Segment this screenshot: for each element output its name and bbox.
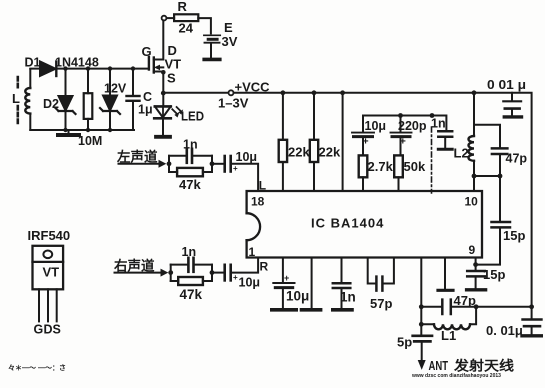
svg-text:发射天线: 发射天线 (453, 358, 515, 374)
node dot tank bottom right (498, 174, 503, 179)
svg-text:+: + (400, 136, 406, 148)
svg-text:L: L (12, 91, 20, 106)
wire filter group top (363, 116, 446, 131)
capacitor 5p (antenna series) (397, 324, 432, 370)
node dot source S / VCC (161, 91, 166, 96)
svg-text:15p: 15p (483, 267, 505, 282)
resistor R 24 (162, 0, 211, 36)
svg-text:ANT: ANT (429, 358, 449, 373)
node dot VCC feed wire (340, 90, 345, 95)
node dot RF node right (474, 304, 479, 309)
svg-text:1n: 1n (183, 138, 198, 152)
svg-text:G: G (34, 323, 44, 337)
op-amp U1 IC BA1404 body (247, 191, 482, 259)
inductor L2 (oscillator coil) (454, 93, 475, 176)
resistor RP1 47k (left channel) (169, 156, 212, 192)
node dot pin 9 (473, 262, 478, 267)
wire VCC to IC pin (342, 93, 344, 191)
node dot RF node left (419, 304, 424, 309)
svg-text:E: E (224, 20, 233, 35)
capacitor C 1n (right channel) (171, 245, 212, 281)
LED indicator (154, 93, 204, 137)
wire top rail of input section (30, 68, 149, 70)
svg-text:+: + (233, 273, 238, 282)
zener diode 12V (100, 69, 127, 130)
svg-text:VT: VT (165, 57, 182, 72)
node dot right combo input (168, 270, 173, 275)
node dot tank bottom left (472, 174, 477, 179)
svg-text:5p: 5p (397, 335, 412, 350)
svg-text:1–3V: 1–3V (218, 96, 249, 111)
svg-text:L1: L1 (441, 328, 456, 343)
wire left channel input arrow (119, 160, 167, 168)
svg-text:47p: 47p (454, 293, 476, 308)
svg-text:47k: 47k (180, 287, 203, 302)
svg-text:57p: 57p (370, 296, 392, 311)
svg-text:1n: 1n (182, 245, 197, 259)
svg-text:50k: 50k (404, 159, 426, 174)
wire bottom rail of input section (30, 129, 134, 131)
svg-text:1N4148: 1N4148 (55, 56, 99, 70)
node dot top 12V (108, 66, 112, 70)
svg-text:22k: 22k (288, 145, 310, 160)
node dot left combo output (210, 161, 215, 166)
node terminal circle VCC (229, 90, 234, 95)
svg-text:L2: L2 (454, 146, 469, 161)
svg-text:D2: D2 (43, 97, 59, 111)
svg-text:1n: 1n (431, 117, 446, 131)
capacitor 10u (right channel coupling) (212, 258, 260, 290)
node dot L1 left (419, 322, 424, 327)
svg-text:+VCC: +VCC (235, 80, 271, 95)
wire +VCC rail (166, 93, 532, 307)
node dot top C (131, 66, 135, 70)
svg-text:47p: 47p (506, 152, 528, 166)
inductor L1 (421, 307, 476, 343)
node dot bottom 12V (108, 128, 112, 132)
svg-text:IRF540: IRF540 (28, 228, 71, 243)
capacitor 10u (left channel coupling) (212, 150, 258, 191)
node dot 220p top (398, 113, 403, 118)
svg-text:2.7k: 2.7k (368, 159, 394, 174)
capacitor 220p (391, 116, 427, 156)
svg-text:々＊—〜 —〜：さ: 々＊—〜 —〜：さ (8, 363, 66, 372)
capacitor C 1n (left channel) (169, 138, 212, 173)
svg-text:左声道: 左声道 (116, 149, 158, 165)
capacitor 47p (antenna coupling) (421, 293, 531, 314)
svg-text:10: 10 (465, 195, 479, 209)
resistor 2.7k (359, 155, 394, 191)
svg-text:DS: DS (44, 323, 61, 337)
svg-text:10μ: 10μ (236, 150, 258, 164)
svg-text:24: 24 (179, 21, 194, 36)
svg-text:IC BA1404: IC BA1404 (311, 216, 384, 231)
resistor RP2 47k (right channel) (171, 265, 212, 302)
node dot shield crossing (430, 113, 435, 118)
svg-text:+: + (233, 164, 238, 173)
inductor L (pickup coil with dashed core) (12, 69, 30, 130)
svg-text:0 01 μ: 0 01 μ (487, 78, 526, 92)
capacitor 15p (pin9 to ground) (467, 265, 506, 290)
capacitor 1n (pilot filter) (431, 117, 452, 150)
zener diode D2 (43, 69, 76, 130)
svg-text:1n: 1n (340, 290, 356, 305)
svg-text:LED: LED (181, 110, 204, 124)
node dot left combo input (167, 161, 172, 166)
svg-text:+: + (284, 273, 289, 283)
svg-text:22k: 22k (319, 145, 341, 160)
svg-text:10μ: 10μ (365, 119, 387, 133)
resistor 50k (394, 155, 426, 191)
svg-text:12V: 12V (104, 82, 127, 96)
wire shield partition (dash-dot) (431, 127, 433, 193)
resistor 22k no.2 (310, 93, 341, 191)
wire pin to RF output node (420, 258, 422, 307)
node dot far right rail bottom (529, 304, 534, 309)
svg-text:VT: VT (43, 265, 60, 280)
capacitor 0.01u (VCC decoupling top right) (487, 78, 526, 117)
ground bar under input rail (58, 133, 79, 137)
capacitor 15p (pin10 side) (478, 176, 525, 265)
svg-text:1μ: 1μ (138, 103, 153, 117)
svg-text:www dzsc com dianzifashaoyou 2: www dzsc com dianzifashaoyou 2013 (411, 373, 501, 379)
svg-text:15p: 15p (503, 228, 525, 243)
capacitor 10u (electrolytic below IC) (272, 258, 309, 310)
svg-text:0. 01μ: 0. 01μ (486, 323, 523, 338)
wire pin to ground (302, 258, 321, 310)
wire pin 9 stub (475, 258, 477, 265)
svg-text:+: + (363, 136, 369, 148)
capacitor 10u (electrolytic, filter group) (352, 116, 386, 156)
svg-text:10μ: 10μ (286, 289, 309, 304)
node dot right combo output (210, 270, 215, 275)
node dot bottom 10M (86, 128, 90, 132)
node dot bottom D2 (63, 128, 67, 132)
capacitor 47p (oscillator tank) (474, 125, 527, 176)
node dot VCC at 22k no.1 (281, 90, 286, 95)
svg-text:R: R (260, 260, 269, 274)
wire pin 10 (473, 176, 475, 191)
wire tank bottom (474, 175, 500, 177)
svg-text:D1: D1 (25, 56, 41, 70)
resistor 10M (78, 69, 102, 148)
node dot VCC at oscillator branch (472, 90, 477, 95)
svg-text:G: G (142, 44, 152, 59)
capacitor 0.01u (bottom right) (486, 307, 542, 338)
capacitor 1n (below IC) (333, 258, 356, 310)
wire pin to ground bar (445) (438, 258, 453, 291)
svg-text:1: 1 (249, 245, 256, 259)
svg-text:3V: 3V (222, 34, 238, 49)
capacitor 57p (between IC pins) (368, 258, 394, 312)
svg-text:220p: 220p (398, 119, 427, 133)
svg-text:10μ: 10μ (239, 276, 261, 290)
svg-text:47k: 47k (179, 177, 201, 192)
node dot VCC at 22k no.2 (312, 90, 317, 95)
wire right channel input arrow (115, 269, 169, 277)
node dot top 10M (86, 66, 90, 70)
svg-text:S: S (167, 71, 176, 86)
resistor 22k no.1 (279, 93, 311, 191)
capacitor C 1u (127, 69, 153, 130)
battery E 3V (204, 20, 238, 59)
svg-text:R: R (178, 0, 188, 14)
node dot top D2 (63, 66, 67, 70)
svg-text:18: 18 (251, 195, 265, 209)
svg-text:10M: 10M (78, 134, 102, 148)
svg-text:9: 9 (469, 243, 476, 257)
transistor package IRF540 (28, 228, 71, 337)
transistor Q1 MOSFET VT (142, 20, 182, 93)
diode D1 1N4148 (25, 56, 99, 77)
svg-text:右声道: 右声道 (114, 258, 155, 274)
